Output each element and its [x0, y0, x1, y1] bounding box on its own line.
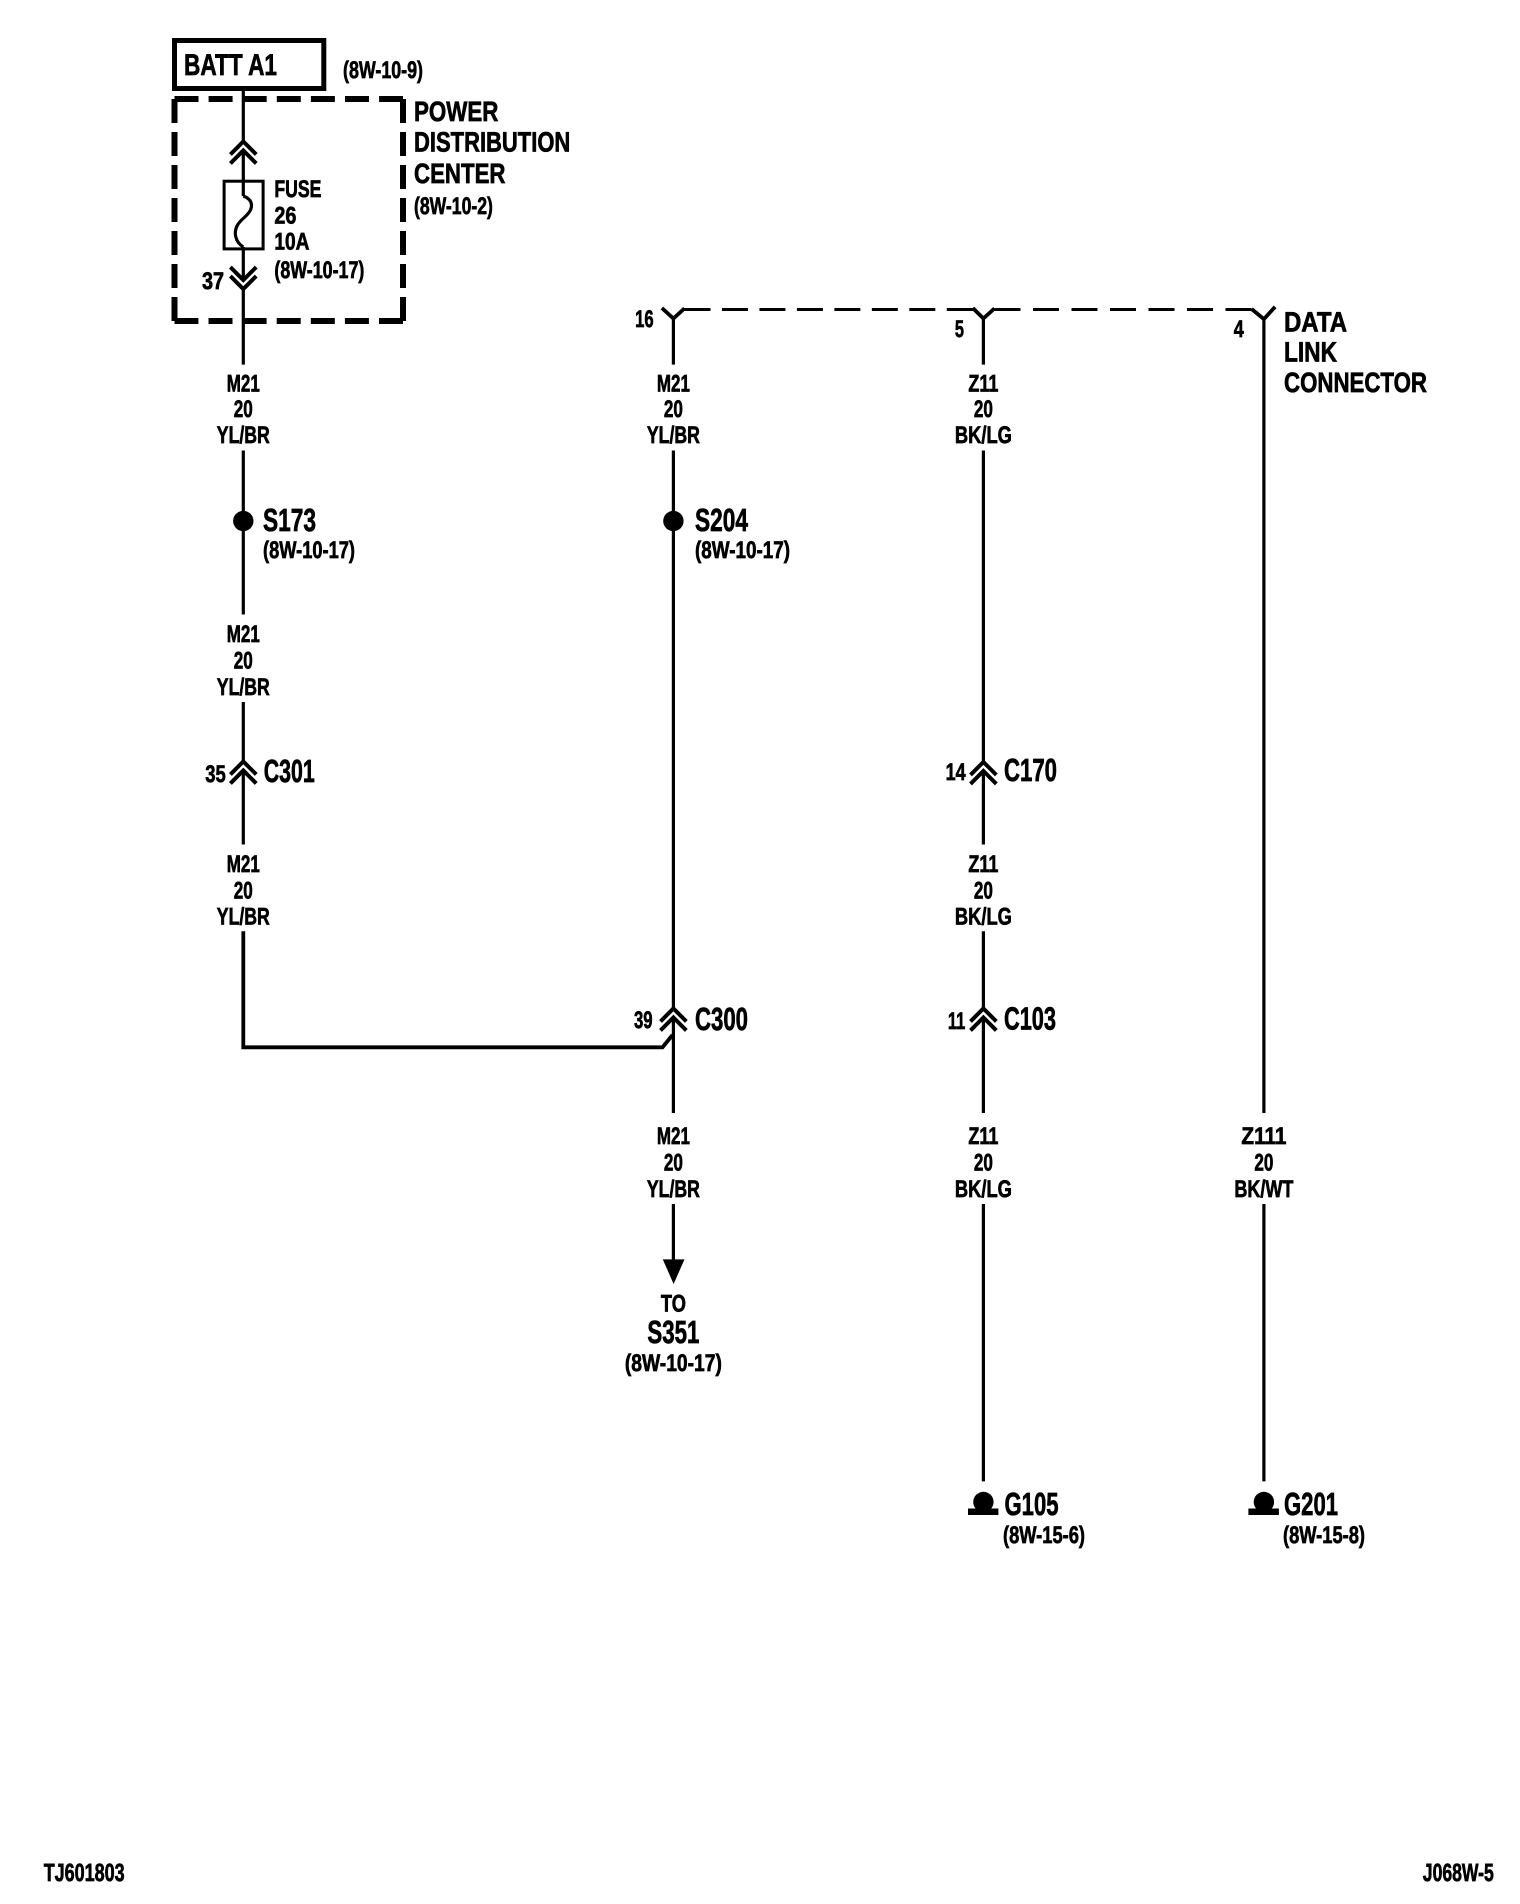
power distribution center dashed box: [175, 99, 404, 321]
label M21 20 YL/BR (column 2 upper): [647, 370, 700, 449]
svg-text:BK/LG: BK/LG: [955, 1176, 1012, 1203]
fuse 26 10A: [224, 181, 263, 249]
svg-text:10A: 10A: [274, 229, 309, 256]
connector C170 pin 14: [946, 752, 1057, 788]
wire chevron to fuse: [242, 151, 245, 197]
svg-text:20: 20: [974, 396, 993, 423]
svg-text:(8W-10-17): (8W-10-17): [695, 537, 790, 564]
svg-text:(8W-10-17): (8W-10-17): [263, 537, 355, 564]
splice S173: [233, 502, 355, 564]
wire M21 branch from column 1 to C300: [243, 931, 672, 1047]
svg-text:CONNECTOR: CONNECTOR: [1284, 367, 1427, 398]
svg-text:20: 20: [664, 396, 683, 423]
svg-text:(8W-15-8): (8W-15-8): [1283, 1522, 1365, 1549]
ground G105: [968, 1486, 1085, 1549]
connector C300 pin 39: [634, 1001, 748, 1037]
svg-text:DATA: DATA: [1284, 306, 1347, 337]
wire stem pin 16: [672, 319, 675, 365]
wire Z11 label to C103: [982, 931, 985, 1010]
svg-text:LINK: LINK: [1284, 337, 1337, 368]
ground G201: [1248, 1486, 1365, 1549]
svg-text:BK/LG: BK/LG: [955, 904, 1012, 931]
wire Z11 to ground G105: [982, 1204, 985, 1481]
svg-text:(8W-15-6): (8W-15-6): [1003, 1522, 1085, 1549]
svg-text:Z11: Z11: [968, 1123, 998, 1150]
connector chevrons pin 37 (PDC output, pointing down): [232, 269, 255, 290]
label M21 20 YL/BR (column 1 upper): [217, 370, 270, 449]
svg-text:5: 5: [955, 316, 964, 343]
wire M21 to off-page arrow: [672, 1204, 675, 1261]
off-page arrow to S351: [663, 1259, 685, 1284]
svg-text:C300: C300: [695, 1001, 748, 1037]
svg-text:(8W-10-17): (8W-10-17): [625, 1350, 722, 1377]
svg-text:FUSE: FUSE: [274, 176, 321, 203]
svg-text:J068W-5: J068W-5: [1423, 1859, 1494, 1887]
label Z11 20 BK/LG (column 3 upper): [955, 370, 1012, 449]
svg-text:4: 4: [1234, 316, 1244, 343]
svg-text:C170: C170: [1004, 752, 1057, 788]
svg-text:20: 20: [974, 878, 993, 905]
dashed link wire pin 16 to pin 5: [685, 308, 973, 311]
label M21 20 YL/BR (column 1 lower): [217, 851, 270, 931]
svg-text:M21: M21: [657, 1123, 690, 1150]
svg-text:YL/BR: YL/BR: [217, 674, 270, 701]
svg-text:26: 26: [274, 202, 296, 229]
connector Y terminal pin 16 (data link connector): [662, 308, 685, 319]
label POWER DISTRIBUTION CENTER (8W-10-2): [414, 96, 570, 220]
svg-text:20: 20: [1254, 1150, 1273, 1177]
svg-text:YL/BR: YL/BR: [647, 1176, 700, 1203]
svg-text:M21: M21: [227, 851, 260, 878]
svg-text:G105: G105: [1005, 1486, 1059, 1522]
wire M21 label to S204 and down to C300: [672, 451, 675, 1011]
wire Z11 label to C170: [982, 451, 985, 764]
svg-text:BK/WT: BK/WT: [1234, 1176, 1293, 1203]
svg-text:C301: C301: [264, 753, 315, 789]
svg-text:Z111: Z111: [1241, 1123, 1286, 1150]
label TO S351 (8W-10-17): [625, 1290, 722, 1377]
svg-text:M21: M21: [657, 370, 690, 397]
svg-text:20: 20: [664, 1150, 683, 1177]
svg-text:11: 11: [948, 1008, 965, 1035]
svg-text:BK/LG: BK/LG: [955, 422, 1012, 449]
svg-text:YL/BR: YL/BR: [217, 904, 270, 931]
svg-text:(8W-10-2): (8W-10-2): [414, 193, 493, 220]
wire M21 label to S173: [242, 451, 245, 615]
svg-text:S351: S351: [647, 1314, 699, 1350]
component BATT A1 feed box: [175, 41, 324, 89]
label Z11 20 BK/LG (column 3 lower): [955, 1123, 1012, 1203]
connector C103 pin 11: [948, 1001, 1056, 1037]
svg-text:35: 35: [205, 761, 226, 788]
wire M21 C300 to label: [672, 1018, 675, 1114]
wire stem pin 5: [982, 319, 985, 365]
label M21 20 YL/BR (column 2 lower): [647, 1123, 700, 1203]
svg-text:CENTER: CENTER: [414, 158, 506, 189]
svg-text:37: 37: [202, 268, 224, 295]
svg-text:20: 20: [234, 396, 253, 423]
svg-text:16: 16: [635, 306, 654, 333]
svg-text:20: 20: [974, 1150, 993, 1177]
connector Y terminal pin 4 (data link connector): [1252, 307, 1276, 319]
wire M21 segment PDC to label: [242, 289, 245, 365]
connector C301 pin 35: [205, 753, 314, 789]
svg-text:M21: M21: [227, 621, 260, 648]
svg-text:DISTRIBUTION: DISTRIBUTION: [414, 127, 570, 158]
svg-text:TJ601803: TJ601803: [44, 1859, 125, 1887]
svg-text:YL/BR: YL/BR: [647, 422, 700, 449]
label Z11 20 BK/LG (column 3 middle): [955, 851, 1012, 931]
svg-text:YL/BR: YL/BR: [217, 422, 270, 449]
connector chevrons inside PDC (top): [232, 142, 255, 163]
wire M21 C301 to label: [242, 771, 245, 845]
svg-text:39: 39: [634, 1007, 653, 1034]
svg-text:S204: S204: [695, 502, 748, 538]
svg-text:20: 20: [234, 648, 253, 675]
svg-text:20: 20: [234, 878, 253, 905]
wire Z11 C103 to label: [982, 1018, 985, 1114]
svg-text:C103: C103: [1004, 1001, 1056, 1037]
svg-text:M21: M21: [227, 370, 260, 397]
wire Z11 C170 to label: [982, 771, 985, 845]
svg-text:(8W-10-9): (8W-10-9): [343, 57, 423, 84]
svg-text:BATT A1: BATT A1: [184, 49, 277, 82]
wire Z111 to ground G201: [1262, 1204, 1265, 1481]
wire from BATT A1 into PDC to fuse: [242, 91, 245, 143]
wire M21 label to C301: [242, 702, 245, 763]
svg-text:Z11: Z11: [968, 370, 998, 397]
label FUSE 26 10A (8W-10-17): [274, 176, 364, 284]
svg-text:G201: G201: [1284, 1486, 1338, 1522]
svg-text:S173: S173: [263, 502, 316, 538]
svg-text:(8W-10-17): (8W-10-17): [274, 257, 364, 284]
wire fuse to pin 37 connector: [242, 247, 245, 281]
label M21 20 YL/BR (column 1 middle): [217, 621, 270, 701]
svg-text:POWER: POWER: [414, 96, 498, 127]
svg-text:14: 14: [946, 759, 966, 786]
splice S204: [663, 502, 790, 564]
wire Z111 stem pin 4 to label: [1262, 319, 1265, 1113]
label Z111 20 BK/WT (column 4): [1234, 1123, 1293, 1203]
connector Y terminal pin 5 (data link connector): [973, 308, 995, 319]
dashed link wire pin 5 to pin 4: [995, 308, 1252, 311]
svg-text:Z11: Z11: [968, 851, 998, 878]
label DATA LINK CONNECTOR: [1284, 306, 1427, 398]
